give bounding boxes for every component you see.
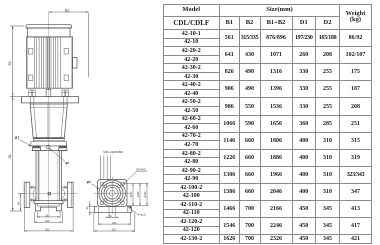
corner bolt holes [100, 182, 125, 205]
motor upper band [28, 28, 71, 37]
base top plate [34, 201, 63, 204]
dimension table [163, 4, 373, 244]
bottom small dim 40 [106, 207, 119, 218]
svg-text:40: 40 [85, 206, 89, 209]
bolt shank ticks through flange [30, 97, 67, 103]
suction flange left plate [24, 182, 30, 207]
svg-text:φi: φi [65, 161, 68, 165]
svg-text:(DN40): (DN40) [136, 168, 146, 172]
foot strip below square [94, 207, 131, 213]
stack tie rods [40, 151, 58, 201]
bottom dimension 302 [25, 208, 74, 232]
suction bolts left [31, 186, 33, 202]
bottom dim 310 [94, 213, 135, 233]
flange outer circle [99, 180, 125, 206]
svg-text:302: 302 [45, 228, 50, 232]
flange bolt-circle ring [101, 182, 123, 204]
motor shaft lines [48, 37, 50, 88]
suction pipe stub left [30, 187, 36, 200]
chamber stack walls [36, 151, 62, 201]
lantern stool trapezoid [30, 103, 68, 142]
discharge bolts right [64, 186, 66, 202]
svg-text:B1: B1 [8, 154, 12, 158]
svg-text:φ240: φ240 [143, 191, 147, 198]
centerlines top view [94, 177, 131, 215]
bottom dimension 190 [37, 212, 60, 218]
svg-text:B3: B3 [65, 9, 69, 13]
svg-text:240: 240 [112, 221, 117, 225]
base feet bottom [35, 210, 62, 212]
left small dim 40 [89, 201, 95, 215]
head left foot [32, 146, 41, 151]
svg-text:190: 190 [45, 214, 50, 218]
svg-text:B2: B2 [8, 61, 12, 65]
svg-text:140: 140 [17, 201, 21, 206]
svg-text:φ1: φ1 [87, 180, 91, 184]
discharge flange right plate [68, 182, 74, 207]
port centerline [18, 193, 78, 195]
dimension port height left [19, 194, 24, 211]
coupling lines [30, 105, 67, 107]
drain plug circle [48, 192, 51, 195]
head top dark band [34, 137, 64, 139]
base square [98, 180, 128, 207]
bottom dim 240 [98, 213, 130, 226]
discharge boss arc [62, 188, 65, 198]
port circle [106, 187, 118, 199]
motor body inner wall lines [27, 37, 71, 88]
svg-text:φ1: φ1 [15, 135, 19, 139]
svg-text:φ180: φ180 [136, 191, 140, 198]
flange bolt holes (diagonals) [104, 185, 120, 201]
suction boss arc [33, 188, 36, 198]
head right foot [59, 146, 68, 151]
pump outline drawing [0, 0, 162, 245]
right dims: extension lines [123, 183, 149, 206]
head bottom line [32, 150, 67, 152]
dimension top horizontal [49, 11, 89, 13]
svg-text:M16-22(DN80): M16-22(DN80) [103, 150, 123, 154]
svg-text:310: 310 [112, 228, 117, 232]
motor top cap [26, 25, 72, 28]
base body [36, 204, 62, 211]
base inner line [38, 204, 60, 207]
bottom dimension 246 [34, 212, 62, 224]
stool inner wall lines [34, 103, 64, 137]
motor fins [35, 37, 61, 88]
pump head body [31, 142, 67, 146]
shaft in stool [48, 103, 50, 137]
dimension left vertical B2/B1 [12, 26, 14, 211]
motor finned body [27, 37, 73, 88]
port bore circle [109, 190, 115, 196]
motor mounting flange wide bar [22, 97, 79, 103]
leader lines to port [101, 156, 111, 181]
discharge pipe stub right [62, 187, 68, 200]
flange bolts right pair [62, 90, 69, 97]
flange bolts left pair [29, 90, 36, 97]
priming plug [46, 145, 50, 149]
shaft coupling block [46, 90, 51, 97]
terminal box [73, 58, 78, 69]
motor side rib marks [28, 49, 68, 81]
flange raised face circle [104, 185, 120, 201]
svg-text:φ100: φ100 [129, 191, 133, 198]
svg-text:4-φ13: 4-φ13 [138, 213, 146, 217]
svg-text:246: 246 [45, 219, 50, 223]
centerline [48, 12, 50, 214]
head rim lines [34, 140, 65, 141]
